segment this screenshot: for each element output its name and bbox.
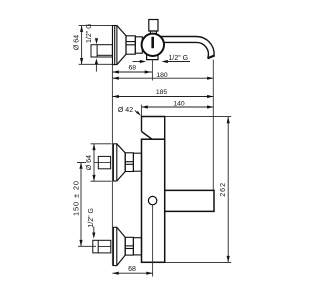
front view: body top cap: [142, 117, 165, 140]
top view: handle slot: [151, 37, 154, 48]
svg-text:262: 262: [220, 182, 227, 197]
lower union: wall plate: [113, 227, 116, 265]
150 +/- 20 dimension: [77, 163, 96, 247]
top view: bottom outlet: [147, 55, 158, 60]
top view: spout: [161, 37, 215, 59]
lower union: nut: [125, 237, 133, 255]
svg-text:Ø 64: Ø 64: [74, 35, 81, 50]
top view: 68 dimension: [113, 70, 153, 73]
top view: escutcheon cone: [117, 26, 126, 65]
top view: wall escutcheon plate: [113, 26, 117, 65]
lower union: supply pipe: [93, 240, 111, 253]
upper union: wall plate: [113, 144, 116, 181]
svg-text:180: 180: [156, 72, 168, 79]
top view: diverter knob: [149, 20, 158, 34]
upper union: collar: [133, 153, 141, 171]
upper union: cone: [117, 144, 125, 181]
top view: outlet width arrows (1/2 inch): [133, 60, 191, 63]
svg-text:140: 140: [173, 100, 185, 107]
top view: nut collar: [135, 37, 142, 53]
top view: 180 dimension: [113, 77, 214, 80]
svg-text:150 ± 20: 150 ± 20: [71, 180, 80, 216]
svg-text:68: 68: [129, 65, 137, 72]
upper union: nut: [125, 153, 133, 172]
top view: centerline below outlet: [151, 60, 153, 81]
top view: connection nut: [126, 36, 135, 54]
lower union: collar: [133, 238, 141, 255]
svg-text:185: 185: [156, 89, 168, 96]
svg-text:1/2" G: 1/2" G: [86, 23, 93, 43]
262 dimension: [165, 117, 231, 263]
top view: body circle: [142, 34, 164, 56]
svg-text:1/2" G: 1/2" G: [169, 55, 189, 62]
front view: spout: [165, 190, 214, 211]
upper union: supply pipe: [94, 156, 111, 168]
wall line: [111, 26, 113, 266]
centerline under diverter: [152, 205, 154, 277]
top view: supply pipe stub: [91, 45, 112, 57]
svg-text:Ø 42: Ø 42: [118, 107, 133, 114]
lower union: cone: [117, 227, 125, 265]
front view: 68 dimension: [112, 272, 152, 275]
front view: 140 dimension: [142, 105, 214, 117]
svg-text:1/2" G: 1/2" G: [88, 208, 95, 228]
front view: body: [142, 139, 165, 262]
front view: dia 64 dimension: [91, 144, 112, 181]
front view: diverter circle: [148, 196, 156, 204]
spout tip extension line: [212, 60, 214, 191]
svg-text:Ø 64: Ø 64: [86, 155, 93, 170]
svg-text:68: 68: [128, 266, 136, 273]
front view: 185 dimension: [113, 95, 214, 98]
top view: dia 64 dimension: [79, 26, 113, 65]
